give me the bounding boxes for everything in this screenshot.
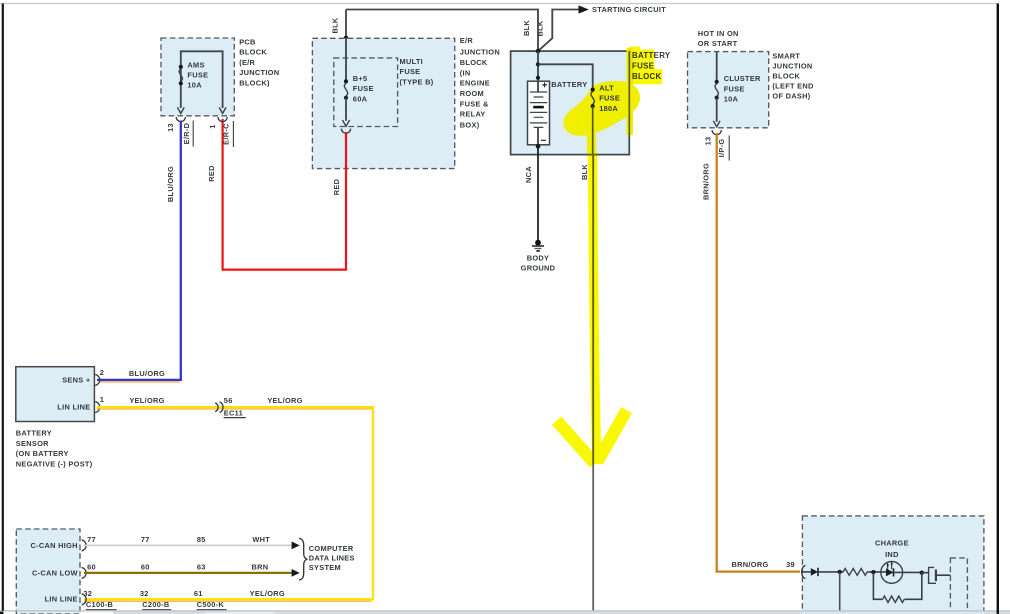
wire LED to node C [894, 571, 922, 573]
battery plus sign [542, 83, 547, 88]
wire NCA battery negative to body ground [537, 145, 539, 240]
svg-text:E/R-D: E/R-D [182, 122, 191, 144]
svg-text:BOX): BOX) [460, 120, 480, 129]
svg-text:39: 39 [786, 560, 795, 569]
svg-text:C-CAN HIGH: C-CAN HIGH [30, 541, 77, 550]
svg-text:E/R: E/R [460, 36, 474, 45]
PCB block box [161, 38, 234, 116]
svg-text:I/P-G: I/P-G [717, 139, 726, 158]
svg-text:WHT: WHT [252, 535, 270, 544]
wire BLU/ORG from E/R-D down to battery sensor SENS+ [97, 121, 181, 380]
wire RED from B+5 fuse to E/R-C [223, 119, 346, 270]
highlight battery fuse block text [629, 50, 654, 61]
svg-text:BLOCK): BLOCK) [239, 78, 270, 87]
svg-text:180A: 180A [599, 104, 618, 113]
highlight arrow right wing [597, 410, 626, 461]
svg-text:BLK: BLK [331, 17, 340, 33]
svg-text:C100-B: C100-B [86, 600, 113, 609]
svg-text:BATTERY: BATTERY [551, 80, 587, 89]
svg-text:60: 60 [141, 563, 150, 572]
connector arc below SJB [712, 130, 721, 135]
svg-text:(TYPE B): (TYPE B) [400, 77, 434, 86]
arrow C-CAN LOW [292, 569, 300, 577]
svg-text:10A: 10A [187, 81, 202, 90]
svg-text:2: 2 [100, 368, 104, 377]
fuse ALT 180A [591, 88, 595, 92]
wire ALT fuse output inside block [592, 106, 594, 155]
svg-text:BLK: BLK [522, 20, 531, 36]
wire into cluster fuse [716, 52, 718, 82]
svg-text:10A: 10A [724, 95, 739, 104]
wire battery feed inside block [537, 51, 539, 81]
wire to node B [867, 571, 886, 573]
battery sensor box [16, 367, 95, 422]
svg-text:60A: 60A [353, 94, 368, 103]
wire to starting circuit [539, 10, 579, 51]
wire cluster fuse output with arrow [716, 98, 718, 122]
transistor Q1 bracket [929, 567, 936, 583]
tracer orange on BLU/ORG horizontal [99, 381, 180, 383]
svg-text:STARTING CIRCUIT: STARTING CIRCUIT [592, 5, 666, 14]
svg-text:YEL/ORG: YEL/ORG [250, 589, 285, 598]
svg-text:85: 85 [197, 535, 206, 544]
battery internal stub top [537, 81, 539, 92]
svg-text:61: 61 [194, 589, 203, 598]
svg-text:13: 13 [166, 123, 175, 132]
connector arcs below PCB block [176, 117, 185, 122]
svg-text:BLU/ORG: BLU/ORG [129, 369, 165, 378]
wire into fuse B+5 [345, 38, 347, 81]
C-CAN box [16, 529, 80, 614]
highlight band inside block [591, 101, 592, 156]
svg-text:BATTERY: BATTERY [16, 429, 52, 438]
svg-text:FUSE: FUSE [187, 71, 208, 80]
wire BLK top horizontal from E/R block to battery block [346, 10, 538, 52]
connector EC11 arcs [215, 403, 218, 412]
page frame lines [0, 3, 998, 5]
svg-text:PCB: PCB [239, 38, 256, 47]
svg-text:FUSE: FUSE [599, 94, 620, 103]
svg-text:CLUSTER: CLUSTER [724, 74, 761, 83]
highlight arrow left wing [557, 421, 595, 464]
svg-text:32: 32 [83, 589, 92, 598]
svg-text:B+5: B+5 [353, 74, 368, 83]
arrow C-CAN HIGH [292, 542, 300, 550]
highlight arrow stroke [593, 155, 597, 464]
wire branch to ALT fuse [538, 64, 593, 89]
battery internal stub bottom [537, 127, 539, 144]
svg-text:AMS: AMS [187, 60, 204, 69]
multi fuse inner box [334, 58, 398, 127]
smart junction block box [688, 52, 769, 128]
battery thick plate [533, 106, 544, 109]
fuse B+5 60A [344, 79, 348, 83]
svg-text:56: 56 [224, 396, 233, 405]
brace computer data lines [299, 538, 307, 580]
svg-text:RELAY: RELAY [460, 110, 486, 119]
svg-text:1: 1 [100, 395, 104, 404]
svg-text:RED: RED [332, 178, 341, 195]
svg-text:GROUND: GROUND [521, 264, 556, 273]
battery B1 outline [528, 81, 550, 145]
wire to node [818, 571, 843, 573]
wire BLK drop into E/R block [345, 10, 347, 39]
svg-text:77: 77 [141, 535, 150, 544]
svg-text:MULTI: MULTI [400, 57, 424, 66]
svg-text:BRN/ORG: BRN/ORG [701, 163, 710, 200]
arrows at PCB block outputs [177, 107, 184, 113]
node B [871, 570, 875, 574]
connector arc LIN LINE pin 1 [95, 402, 100, 413]
node branch to ALT fuse [536, 62, 540, 66]
resistor R2 parallel loop [873, 572, 882, 599]
wire entry [803, 571, 811, 573]
fuse AMS 10A [179, 65, 183, 69]
highlight blob over ALT fuse (opaque over box fill) [567, 84, 637, 132]
node junction on E/R block top [344, 36, 348, 40]
connector arc row1 [82, 540, 87, 551]
svg-text:ALT: ALT [599, 83, 614, 92]
highlight layer [557, 49, 662, 464]
svg-text:C-CAN LOW: C-CAN LOW [32, 568, 78, 577]
resistor R2 [883, 596, 905, 602]
svg-text:E/R-C: E/R-C [222, 123, 231, 145]
svg-text:BLOCK: BLOCK [460, 58, 488, 67]
svg-text:HOT IN ON: HOT IN ON [698, 29, 739, 38]
highlight strip on block edge [627, 48, 634, 135]
svg-text:EC11: EC11 [224, 409, 243, 418]
wire node A down [839, 572, 841, 611]
E/R junction block box [312, 38, 454, 168]
connector arc SENS+ pin 2 [95, 374, 100, 385]
svg-text:77: 77 [87, 535, 96, 544]
svg-text:C200-B: C200-B [142, 600, 169, 609]
battery plates [530, 92, 547, 123]
tracer orange on YEL/ORG [84, 409, 372, 601]
LED circle [881, 562, 903, 584]
svg-text:ENGINE: ENGINE [460, 79, 490, 88]
wire BRN/ORG from cluster fuse down to charge ind [717, 133, 800, 572]
fuse CLUSTER 10A [715, 80, 719, 84]
svg-text:BRN/ORG: BRN/ORG [732, 560, 769, 569]
svg-text:BLU/ORG: BLU/ORG [166, 166, 175, 202]
svg-text:JUNCTION: JUNCTION [772, 62, 812, 71]
node C [920, 571, 924, 575]
svg-text:DATA LINES: DATA LINES [309, 553, 355, 562]
connector arc row3 [82, 594, 87, 605]
svg-text:SYSTEM: SYSTEM [309, 563, 341, 572]
resistor R1 [843, 569, 867, 576]
wire BLK from ALT fuse down page [592, 155, 594, 611]
wire YEL/ORG from LIN LINE right, down, to C-CAN box LIN LINE [84, 407, 373, 599]
wire WHT C-CAN HIGH [84, 544, 292, 546]
page bottom partial row [0, 610, 1010, 612]
svg-text:COMPUTER: COMPUTER [309, 544, 354, 553]
svg-text:BLK: BLK [536, 20, 545, 36]
svg-text:LIN LINE: LIN LINE [45, 595, 78, 604]
svg-text:FUSE: FUSE [400, 67, 421, 76]
wire BRN C-CAN LOW [84, 572, 292, 574]
svg-text:NCA: NCA [524, 166, 533, 183]
svg-text:BLOCK: BLOCK [239, 48, 267, 57]
node on battery block top [536, 49, 541, 54]
svg-text:ROOM: ROOM [460, 89, 484, 98]
LED arrows [888, 564, 892, 571]
arrowhead starting circuit [579, 5, 589, 13]
svg-text:LIN LINE: LIN LINE [57, 403, 90, 412]
svg-text:JUNCTION: JUNCTION [460, 47, 500, 56]
svg-text:IND: IND [885, 550, 899, 559]
svg-text:OR START: OR START [698, 39, 738, 48]
node above battery [536, 76, 540, 80]
svg-text:(ON BATTERY: (ON BATTERY [16, 449, 69, 458]
svg-text:FUSE: FUSE [724, 84, 745, 93]
regulator dashed box [950, 558, 967, 614]
wire node C to transistor [922, 572, 929, 574]
svg-text:C500-K: C500-K [197, 600, 225, 609]
svg-text:BODY: BODY [527, 253, 550, 262]
node battery negative [536, 144, 541, 149]
svg-text:FUSE: FUSE [353, 84, 374, 93]
svg-text:BRN: BRN [252, 563, 269, 572]
wire U inside PCB block [181, 51, 223, 108]
connector arc row2 [82, 567, 87, 578]
svg-text:32: 32 [140, 589, 149, 598]
svg-text:1: 1 [208, 124, 217, 128]
svg-text:NEGATIVE (-) POST): NEGATIVE (-) POST) [16, 459, 93, 468]
svg-text:OF DASH): OF DASH) [772, 91, 810, 100]
diode D1 [811, 568, 818, 576]
svg-text:YEL/ORG: YEL/ORG [129, 396, 164, 405]
LED triangle [886, 569, 894, 577]
svg-text:63: 63 [197, 563, 206, 572]
node A [838, 570, 842, 574]
battery fuse block box [511, 51, 630, 155]
svg-text:FUSE &: FUSE & [460, 100, 489, 109]
body ground symbol [535, 240, 541, 246]
svg-text:13: 13 [703, 137, 712, 146]
wire R2 to node C [904, 573, 921, 600]
battery minus sign [541, 139, 546, 141]
svg-text:CHARGE: CHARGE [875, 539, 909, 548]
svg-text:JUNCTION: JUNCTION [239, 68, 279, 77]
wire fuse output with arrow [345, 98, 347, 121]
svg-text:RED: RED [207, 165, 216, 182]
svg-text:60: 60 [87, 563, 96, 572]
connector arc below multi fuse box [341, 129, 350, 134]
connector arc at charge block entry [802, 565, 806, 578]
svg-text:(E/R: (E/R [239, 58, 255, 67]
charge ind block box [802, 516, 984, 614]
svg-text:SENSOR: SENSOR [16, 439, 49, 448]
svg-text:SMART: SMART [772, 52, 800, 61]
svg-text:BLK: BLK [580, 164, 589, 180]
svg-text:SENS +: SENS + [62, 375, 91, 384]
svg-text:BLOCK: BLOCK [772, 72, 800, 81]
wire transistor to regulator box [936, 574, 951, 576]
svg-text:(IN: (IN [460, 69, 471, 78]
block border seen through highlight [628, 51, 630, 135]
svg-text:YEL/ORG: YEL/ORG [267, 396, 302, 405]
svg-text:(LEFT END: (LEFT END [772, 81, 814, 90]
